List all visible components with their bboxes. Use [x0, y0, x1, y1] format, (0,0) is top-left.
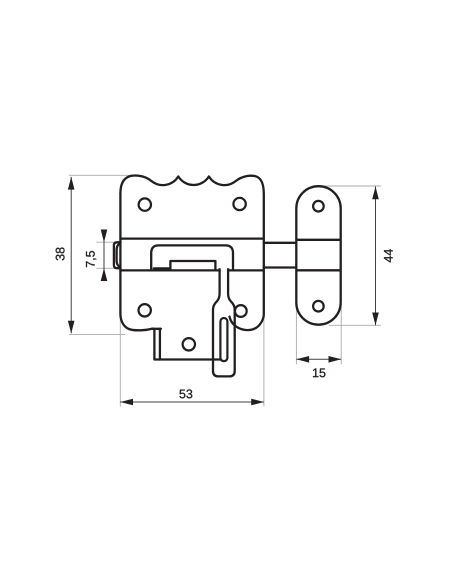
bolt tip inner line: [117, 244, 120, 267]
dimension line 44: [375, 187, 377, 326]
arrow 7,5 up (below): [101, 268, 108, 281]
bolt edge left of rectangle: [154, 267, 171, 269]
label 44: [384, 249, 393, 262]
arrow 15 right: [329, 356, 342, 363]
extension line 38 top: [69, 174, 131, 176]
arrow 38 up: [68, 177, 75, 190]
keeper hole top: [313, 201, 324, 212]
extension line 53 right: [263, 315, 265, 407]
plate hole top-left: [139, 198, 151, 210]
label 7,5: [86, 251, 96, 267]
handle stem and knob: [213, 268, 235, 376]
label 38: [56, 247, 65, 260]
tab strip top cap: [152, 328, 161, 330]
arrow 44 up: [372, 187, 379, 200]
rod across keeper top: [296, 239, 340, 241]
staple guide: [151, 245, 233, 270]
tab hole: [183, 338, 195, 350]
extension line 44 top: [319, 185, 381, 187]
plate outline left/bottom/tab: [120, 194, 152, 331]
arrow 53 left: [120, 399, 133, 406]
tab step right edge: [159, 329, 161, 359]
extension line 53 left: [119, 315, 121, 407]
keeper hole bottom: [313, 301, 324, 312]
keeper plate: [296, 186, 340, 325]
bolt rectangle: [170, 261, 215, 270]
band top line: [122, 237, 263, 239]
arrow 7,5 down (above): [101, 230, 108, 243]
extension line 7,5 top: [96, 241, 115, 243]
tab step left edge: [154, 329, 220, 360]
extension line 38 bottom: [69, 333, 125, 335]
arrow 53 right: [251, 399, 264, 406]
plate outline top/right: [120, 175, 263, 330]
extension line 44 bottom: [329, 324, 381, 326]
extension line 7,5 bottom: [96, 267, 116, 269]
plate hole bottom-right: [235, 305, 247, 317]
rod between plate and keeper top: [264, 242, 297, 244]
plate hole bottom-left: [139, 304, 151, 316]
extension line 15 right: [340, 306, 342, 364]
arrow 38 down: [68, 321, 75, 334]
band bottom line right: [228, 269, 262, 271]
arrow 44 down: [372, 313, 379, 326]
dimension line 38: [70, 177, 72, 334]
bolt tip outer: [114, 242, 121, 268]
label 53: [179, 389, 192, 398]
dimension line 53: [120, 401, 264, 403]
dimension line 15: [296, 358, 341, 360]
label 15: [313, 369, 325, 378]
extension line 15 left: [295, 306, 297, 364]
band bottom line left: [122, 269, 220, 271]
handle slot: [220, 318, 227, 361]
rod between plate and keeper bottom: [264, 266, 297, 268]
plate hole top-right: [233, 198, 245, 210]
dimension line 7,5: [103, 230, 105, 281]
rod across keeper bottom: [296, 269, 340, 271]
arrow 15 left: [296, 356, 309, 363]
